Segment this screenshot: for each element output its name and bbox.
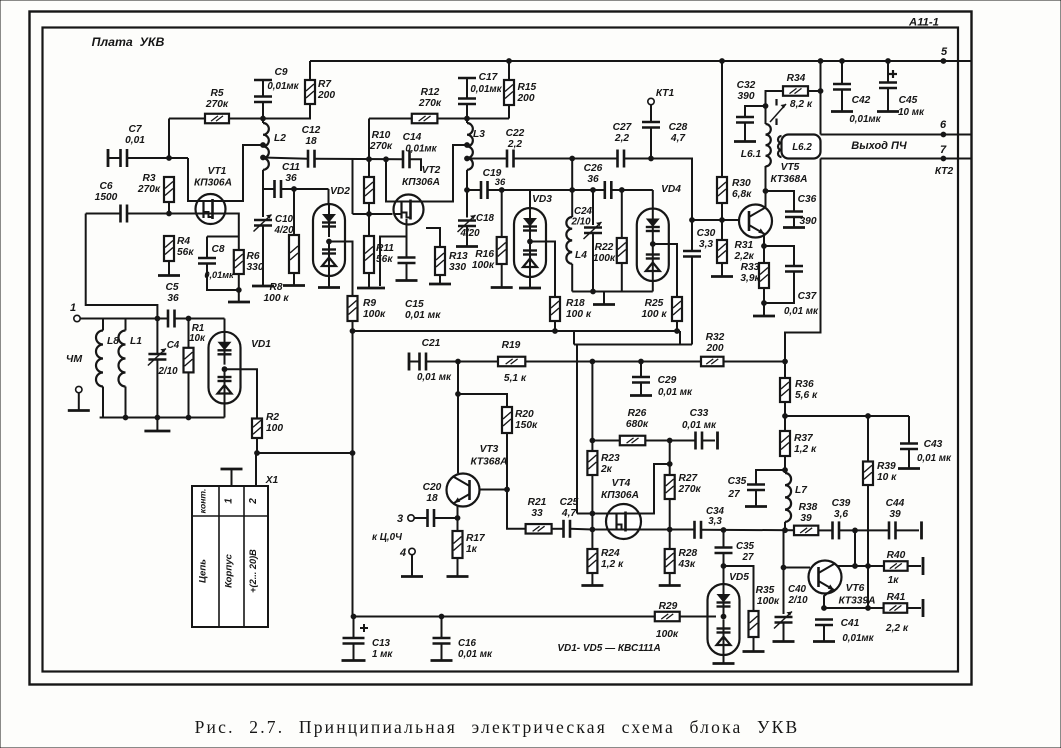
svg-text:5,1 к: 5,1 к [504, 373, 527, 384]
junction R20 tap [455, 391, 461, 397]
wire C45 leg [887, 61, 889, 83]
capacitor C25 [562, 520, 565, 538]
svg-text:С16: С16 [458, 638, 477, 649]
ground of X1 pin1 [221, 468, 243, 471]
junction C7/R3/R5 gate node [166, 155, 172, 161]
svg-text:VD2: VD2 [330, 186, 350, 197]
svg-text:0,01 мк: 0,01 мк [658, 387, 693, 398]
wire C32 branch [745, 106, 766, 117]
junction C42 on bus [839, 58, 845, 64]
plus sign of C13 [360, 627, 368, 629]
capacitor C11 [273, 180, 276, 198]
wire input bus right [175, 318, 225, 320]
svg-text:27: 27 [742, 552, 754, 563]
svg-text:С43: С43 [924, 439, 943, 450]
wire C37 branch [764, 246, 794, 266]
wire C35-1 branch [756, 470, 785, 485]
svg-text:С22: С22 [506, 128, 525, 139]
svg-text:2к: 2к [600, 464, 613, 475]
wire R22 top leg [621, 190, 623, 238]
wire C13 leg [353, 617, 355, 639]
svg-text:100к: 100к [757, 596, 780, 607]
junction R30 on supply bus [719, 58, 725, 64]
junction link tap on bus [569, 156, 575, 162]
wire VT5 collector [765, 166, 767, 208]
junction R39-R41 [865, 605, 871, 611]
junction R34 / KT2 column [818, 88, 824, 94]
ground under R24 [581, 584, 603, 587]
capacitor C34 [693, 521, 696, 539]
wire C6 drop from above [86, 214, 158, 319]
resistor R31 [717, 240, 727, 263]
junction R1 tap [186, 316, 192, 322]
resistor R36 [780, 378, 790, 402]
svg-text:2,2: 2,2 [507, 139, 522, 150]
capacitor C15 [398, 256, 416, 259]
svg-text:1: 1 [224, 498, 235, 504]
resistor R9 [348, 296, 358, 321]
wire R12 to C17 node [437, 118, 509, 120]
junction C21/VT3 collector [455, 359, 461, 365]
svg-text:6,8к: 6,8к [732, 189, 752, 200]
wire R5 bus [169, 118, 205, 120]
resistor R19 [498, 357, 525, 367]
wire R10 bottom [368, 203, 370, 214]
wire VD3 bottom ground [529, 277, 531, 287]
svg-text:8,2 к: 8,2 к [790, 99, 813, 110]
svg-text:КТ368А: КТ368А [771, 174, 808, 185]
resistor R24 [587, 549, 597, 573]
diode VD5 varicap pair [708, 584, 740, 655]
svg-text:R41: R41 [887, 592, 906, 603]
diode VD2 varicap pair [313, 204, 345, 276]
wire C29 ground stub [640, 383, 642, 395]
junction R39 top [865, 413, 871, 419]
junction L7 on R38 bus [782, 527, 788, 533]
svg-text:С18: С18 [476, 213, 495, 224]
svg-text:L4: L4 [575, 250, 587, 261]
wire R10 corner to R12 [369, 118, 412, 120]
wire R37 to L7 [784, 456, 786, 473]
resistor R26 [620, 436, 646, 446]
wire L6.1 top to R34 [766, 91, 784, 124]
resistor R35 [749, 611, 759, 637]
svg-text:VD4: VD4 [661, 184, 681, 195]
wire C34 to R38 bus [701, 529, 794, 531]
wire VT1 source [225, 214, 239, 237]
wire C7 left lead [108, 157, 121, 159]
svg-text:R4: R4 [177, 236, 190, 247]
wire terminal 6 line [821, 134, 972, 136]
transistor VT4 КП306А [606, 504, 641, 539]
inductor L7 [785, 473, 791, 522]
wire C24 bottom leg [592, 233, 594, 292]
svg-text:С15: С15 [405, 299, 424, 310]
ground under VD5 [713, 662, 735, 665]
svg-text:2/10: 2/10 [157, 366, 178, 377]
svg-text:КТ368А: КТ368А [471, 457, 508, 468]
svg-text:2,2: 2,2 [614, 133, 629, 144]
svg-text:R18: R18 [566, 298, 585, 309]
resistor R25 [672, 297, 682, 321]
ground under C15 [396, 279, 418, 282]
arrow of C40 [774, 612, 792, 629]
svg-text:5: 5 [941, 46, 948, 58]
wire R26 bus [592, 440, 619, 442]
svg-text:56к: 56к [177, 247, 194, 258]
wire VD1 top leg [224, 319, 226, 332]
svg-text:A11-1: A11-1 [908, 17, 939, 29]
junction R2 bus corner [350, 450, 356, 456]
svg-text:36: 36 [495, 176, 506, 187]
resistor R38 [794, 526, 818, 536]
ground under C18 [456, 245, 478, 248]
svg-text:С11: С11 [282, 162, 300, 173]
wire C18 leg [466, 190, 468, 218]
wire R39 to R40/R41 [867, 485, 869, 608]
capacitor C7 [119, 149, 122, 167]
svg-text:R39: R39 [877, 461, 896, 472]
diode VD4 varicap pair [637, 209, 669, 282]
svg-text:VT3: VT3 [480, 444, 499, 455]
svg-text:56к: 56к [376, 254, 393, 265]
svg-text:100 к: 100 к [642, 309, 668, 320]
svg-text:3,3: 3,3 [708, 516, 722, 527]
transistor VT5 КТ368А [739, 205, 772, 238]
ground under C10 [252, 285, 274, 288]
junction L3 bottom [464, 187, 470, 193]
svg-text:R22: R22 [595, 242, 614, 253]
svg-text:R31: R31 [735, 240, 754, 251]
capacitor C20 [426, 509, 429, 527]
junction R10 tap on C12 bus [366, 156, 372, 162]
svg-text:R2: R2 [266, 412, 279, 423]
wire R15 bottom leg [508, 105, 510, 119]
terminal bar R41 [922, 599, 925, 617]
svg-text:L1: L1 [130, 336, 142, 347]
wire L1 top leg [125, 319, 127, 331]
svg-text:10 к: 10 к [877, 472, 897, 483]
arrow of C18 [458, 215, 476, 232]
ground under R35 [743, 650, 765, 653]
svg-text:С44: С44 [886, 498, 905, 509]
wire R16 ground stub [501, 264, 503, 287]
terminal КТ1 [648, 98, 654, 104]
wire R3 bottom to C6 node [168, 202, 170, 214]
wire terminal2 stub [78, 393, 80, 410]
ground under C43 [898, 467, 920, 470]
resistor R32 [701, 357, 724, 367]
capacitor C19 [480, 181, 483, 199]
svg-text:18: 18 [305, 136, 317, 147]
svg-text:С42: С42 [852, 95, 871, 106]
svg-text:2,2к: 2,2к [734, 251, 755, 262]
svg-text:200: 200 [517, 93, 535, 104]
wire KT2 column to R32 node [785, 159, 821, 363]
svg-text:С26: С26 [584, 163, 603, 174]
resistor R34 [783, 86, 808, 96]
resistor R37 [780, 431, 790, 456]
capacitor C10 variable [254, 219, 272, 222]
terminal 4 [409, 548, 415, 554]
resistor R21 [526, 524, 552, 534]
wire C25 to gate bus [570, 528, 592, 531]
resistor R15 [504, 80, 514, 105]
capacitor C42 [833, 83, 851, 86]
transistor VT6 КТ339А [809, 561, 842, 594]
wire VD3 tap to R18 [530, 242, 555, 298]
ground under R11/VT2 source [357, 287, 385, 290]
wire C18 ground stub [466, 226, 468, 246]
svg-text:R19: R19 [502, 340, 521, 351]
svg-text:VD3: VD3 [532, 194, 552, 205]
svg-text:R20: R20 [515, 409, 534, 420]
svg-text:270к: 270к [369, 141, 393, 152]
resistor R22 [617, 238, 627, 263]
junction R23 column [590, 359, 596, 365]
wire R7 bottom to C9 node [263, 104, 310, 119]
wire C33 right lead [702, 440, 715, 442]
terminal 6 junction [941, 132, 947, 138]
junction C24 tap [590, 187, 596, 193]
wire VT3 base lead [480, 489, 508, 491]
svg-text:С33: С33 [690, 408, 709, 419]
svg-text:0,01мк: 0,01мк [842, 633, 874, 644]
capacitor C32 [736, 116, 754, 119]
svg-text:+(2... 20)В: +(2... 20)В [248, 549, 258, 593]
svg-text:4,7: 4,7 [670, 133, 686, 144]
capacitor C44 [888, 521, 891, 539]
wire L2 bottom to C11 node [262, 170, 264, 189]
junction VD2 centre tap [326, 239, 332, 245]
wire L4 bottom [571, 264, 573, 292]
svg-text:Плата УКВ: Плата УКВ [92, 35, 165, 49]
resistor R5 [205, 114, 229, 124]
capacitor C33 [694, 432, 697, 450]
junction C17/L3 node [464, 116, 470, 122]
ground under R17 [447, 575, 469, 578]
wire VD2 bottom ground [328, 276, 330, 287]
wire C36 ground stub [793, 217, 795, 227]
svg-text:2/10: 2/10 [570, 217, 591, 228]
wire R15 top leg [508, 61, 510, 80]
junction R26 tap [590, 438, 596, 444]
wire R2 bus [257, 452, 353, 454]
wire C14 right stub [410, 159, 422, 171]
capacitor C30 [683, 250, 701, 253]
arrow of C4 [148, 349, 166, 366]
svg-text:КТ339А: КТ339А [839, 596, 876, 607]
svg-text:1,2 к: 1,2 к [601, 559, 624, 570]
svg-text:С7: С7 [128, 124, 142, 135]
transistor VT1 КП306А [196, 194, 226, 224]
svg-text:R29: R29 [659, 601, 678, 612]
wire C22 to C27 [514, 158, 618, 160]
svg-text:С17: С17 [479, 72, 499, 83]
svg-text:С21: С21 [422, 338, 441, 349]
wire R29 bus [353, 616, 655, 618]
wire VD2 top leg [328, 189, 330, 204]
junction L2 drain tap [260, 142, 266, 148]
svg-text:С24: С24 [574, 206, 593, 217]
wire VT4 upper line [577, 513, 607, 515]
ground under R33 [753, 315, 775, 318]
svg-text:КП306А: КП306А [194, 178, 232, 189]
wire R34 right leg [808, 90, 821, 92]
wire C30 lower leg [691, 257, 693, 345]
capacitor C24 variable [584, 226, 602, 229]
junction C9/R5/R7/L2 node [260, 116, 266, 122]
wire VT4 gate bus [592, 529, 606, 531]
wire R35 branch [724, 566, 754, 611]
svg-text:4: 4 [399, 547, 406, 559]
svg-text:L2: L2 [274, 133, 286, 144]
svg-text:270к: 270к [137, 184, 161, 195]
capacitor C6 [119, 205, 122, 223]
capacitor C36 [785, 210, 803, 213]
junction R22 tap [619, 187, 625, 193]
capacitor C41 [815, 618, 833, 621]
svg-text:С25: С25 [560, 497, 579, 508]
svg-text:R33: R33 [741, 262, 760, 273]
wire R16 top [501, 190, 503, 237]
svg-text:С5: С5 [165, 282, 178, 293]
wire R8 ground stub [293, 273, 295, 285]
wire VT5 emitter [763, 235, 765, 263]
svg-text:VD5: VD5 [729, 572, 749, 583]
svg-text:VT2: VT2 [422, 165, 441, 176]
svg-text:10к: 10к [189, 333, 206, 344]
resistor R28 [665, 549, 675, 573]
svg-text:С6: С6 [99, 181, 112, 192]
wire L2 tap to C12 [263, 158, 308, 159]
svg-text:330: 330 [247, 262, 264, 273]
svg-text:VD1- VD5 — КВС111А: VD1- VD5 — КВС111А [557, 643, 660, 654]
resistor R10 [364, 177, 374, 203]
diode VD3 varicap pair [514, 208, 546, 277]
svg-text:ЧМ: ЧМ [66, 353, 82, 365]
wire C27 to corner [624, 159, 692, 221]
inductor L8 [96, 331, 103, 387]
ground under C45 [877, 110, 899, 113]
resistor R4 [164, 236, 174, 261]
wire C40 ground stub [783, 623, 785, 641]
junction R16/C19 [499, 187, 505, 193]
svg-text:0,01 мк: 0,01 мк [682, 420, 717, 431]
wire C35-1 ground stub [755, 490, 757, 506]
svg-text:0,01 мк: 0,01 мк [458, 649, 493, 660]
svg-text:С14: С14 [403, 132, 422, 143]
capacitor C13 electrolytic [343, 637, 365, 640]
ground under R28 [659, 584, 681, 587]
svg-text:X1: X1 [265, 475, 279, 486]
junction link top [569, 187, 575, 193]
svg-text:100 к: 100 к [264, 293, 290, 304]
inductor L6.1 [766, 124, 771, 166]
resistor R39 [863, 462, 873, 486]
wire C24 top leg [592, 190, 594, 225]
wire drop to VT4 drain line [576, 345, 578, 514]
svg-text:270к: 270к [678, 484, 702, 495]
junction VD1 centre tap [222, 366, 228, 372]
wire VD2 tap to R9 [329, 242, 353, 297]
svg-text:С40: С40 [788, 584, 807, 595]
arrow of C24 [584, 222, 602, 239]
capacitor C45 electrolytic [879, 81, 897, 84]
wire X1 pin2 up [255, 453, 257, 486]
junction VD3 centre tap [527, 239, 533, 245]
junction C39/C44 node [852, 528, 858, 534]
ground under C41 [813, 640, 835, 643]
ground of tank rail [593, 303, 615, 306]
svg-text:С13: С13 [372, 638, 391, 649]
junction C4 bottom [155, 415, 161, 421]
capacitor C26 [603, 181, 606, 199]
capacitor C28 [642, 121, 660, 124]
svg-text:С8: С8 [211, 244, 224, 255]
svg-text:0,01мк: 0,01мк [849, 114, 881, 125]
svg-text:R36: R36 [795, 379, 814, 390]
wire R23 to VT4 nodes [591, 475, 593, 549]
wire C30 upper leg [691, 159, 693, 252]
svg-text:3: 3 [397, 513, 403, 525]
ground under C13 [342, 659, 366, 662]
wire R25 bottom [676, 321, 678, 331]
wire R36 to R37 [784, 402, 786, 431]
wire terminal 7 line [821, 158, 972, 160]
wire R22 bottom leg [621, 263, 623, 292]
wire R36 top leg [784, 362, 786, 379]
inductor L3 [467, 123, 473, 170]
svg-text:С39: С39 [832, 498, 851, 509]
svg-text:С20: С20 [423, 482, 442, 493]
svg-text:R12: R12 [421, 87, 440, 98]
wire L4 top leg [571, 190, 573, 217]
connector X1 table [192, 486, 268, 627]
capacitor C21 [418, 353, 421, 371]
wire VD1 tap to R2 [225, 369, 258, 418]
ground under R4 [158, 274, 180, 277]
svg-text:R15: R15 [518, 82, 537, 93]
capacitor C9 [254, 79, 272, 82]
wire R20 node to R21 [507, 490, 526, 529]
svg-text:R38: R38 [799, 502, 818, 513]
wire C26 to VD4 [611, 189, 653, 191]
svg-text:7: 7 [940, 144, 947, 156]
svg-text:R6: R6 [247, 251, 260, 262]
wire gate bus right [641, 529, 695, 531]
resistor R12 [412, 114, 438, 124]
junction C13 [351, 614, 357, 620]
wire C43 bus [785, 415, 909, 417]
resistor R7 [305, 80, 315, 104]
wire R2 bottom [256, 438, 258, 453]
ground under R31 [711, 275, 733, 278]
resistor R40 [884, 561, 908, 571]
arrow of C10 [254, 215, 272, 232]
wire VT3 emitter [457, 507, 459, 532]
transistor VT3 КТ368А [447, 474, 480, 507]
inner border frame [43, 28, 959, 672]
wire C37 bottom [764, 272, 794, 304]
capacitor C35 (2) [715, 546, 733, 549]
junction L3 output tap [464, 156, 470, 162]
svg-text:1к: 1к [888, 575, 900, 586]
wire R38 to C39 [818, 529, 832, 531]
svg-text:Цепь: Цепь [198, 559, 209, 583]
wire R9 bottom [352, 321, 354, 331]
wire C8 bottom leg [207, 264, 239, 291]
